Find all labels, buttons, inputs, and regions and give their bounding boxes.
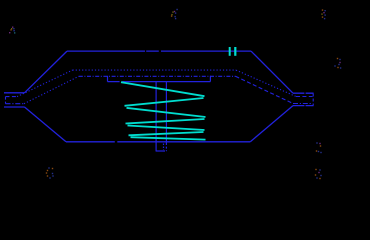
wire inner upper-left dotted diagonal	[17, 70, 73, 97]
spring front stroke 4	[131, 137, 206, 139]
node label 1 (top left)	[9, 27, 15, 34]
center guide tube	[156, 82, 167, 151]
spring front stroke 2	[127, 108, 206, 117]
spring (coil)	[121, 82, 206, 139]
wire tube left wall	[155, 82, 157, 151]
wire tube right wall solid part	[165, 82, 167, 143]
capacitor C1 plates	[229, 47, 237, 56]
wire right port inner bottom dash-dot	[293, 103, 313, 105]
node label 3 (top right)	[321, 9, 326, 19]
wire bracket bottom horizontal	[108, 81, 211, 83]
wire left port inner top dashed	[6, 96, 18, 98]
spring front stroke 3	[128, 126, 205, 131]
node label 2 (top middle)	[171, 9, 178, 19]
spring back stroke 1	[125, 98, 204, 106]
wire bracket left vertical	[107, 76, 109, 82]
wire right lower diagonal	[250, 106, 293, 142]
spring back stroke 2	[126, 119, 205, 124]
wire left upper diagonal	[25, 51, 68, 93]
wire left lower diagonal	[25, 107, 67, 142]
vessel inner wall hidden lines	[6, 70, 314, 105]
node label 5 (bottom left)	[46, 167, 54, 178]
wire bracket right vertical	[209, 76, 211, 82]
wire inner top dotted line	[73, 69, 237, 71]
wire tube inner dashed vertical	[163, 144, 165, 151]
wire tube right wall dashed part	[165, 143, 167, 151]
wire inner lower-left dotted diagonal	[24, 76, 79, 103]
wire top wall	[67, 50, 251, 52]
node label 4 (right upper)	[334, 58, 341, 69]
wire right upper diagonal	[251, 51, 293, 93]
spring back stroke 3	[129, 132, 204, 135]
wire right port end cap dashed vertical	[312, 94, 314, 106]
capacitor plate right	[234, 47, 236, 56]
wire right port top	[293, 92, 314, 94]
wire inner lower-right dashed diagonal	[236, 76, 294, 103]
spring front stroke 1	[121, 82, 205, 96]
wire bottom wall	[66, 141, 250, 143]
wire inner shelf dashed line	[79, 75, 236, 77]
wire inner upper-right dotted diagonal	[236, 70, 296, 96]
capacitor plate left	[229, 47, 231, 56]
wire left port top	[4, 92, 25, 94]
wire tube bottom cap dashed corner	[163, 150, 167, 152]
wire right port inner top dashed	[296, 96, 313, 98]
wire left port inner bottom dash-dot	[6, 103, 25, 105]
wire right port bottom	[293, 105, 314, 107]
wire tube bottom cap	[156, 150, 163, 152]
wire left port mouth dashed vertical	[5, 97, 7, 104]
spring support bracket	[108, 76, 211, 82]
node label 7 (bottom right)	[315, 169, 322, 179]
vessel outer wall solid outline	[4, 51, 314, 142]
wire left port bottom	[4, 106, 25, 108]
node label 6 (right middle)	[316, 142, 322, 153]
